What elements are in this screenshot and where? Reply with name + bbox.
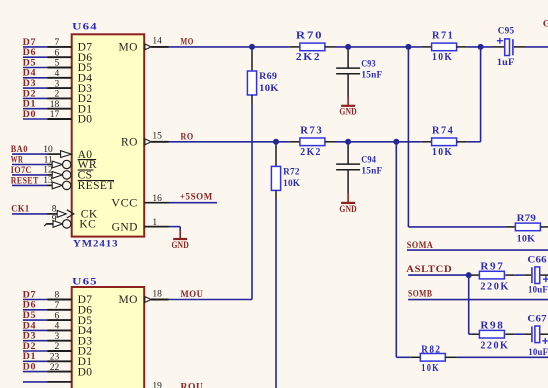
svg-text:10K: 10K [517,234,536,244]
svg-text:8: 8 [52,205,57,215]
svg-text:C66: C66 [527,254,547,264]
svg-text:6: 6 [54,48,59,58]
svg-text:D1: D1 [23,352,36,362]
svg-text:MOU: MOU [181,290,204,300]
svg-text:10K: 10K [283,178,300,188]
svg-text:RO: RO [181,132,194,142]
svg-text:220K: 220K [480,340,509,352]
svg-text:KC: KC [79,219,96,231]
svg-text:D3: D3 [23,332,36,342]
svg-text:IO7C: IO7C [11,166,32,176]
svg-text:10uF: 10uF [528,285,548,295]
svg-text:RESET: RESET [11,176,39,186]
svg-text:220K: 220K [480,281,510,293]
svg-text:MO: MO [118,294,137,306]
svg-text:D7: D7 [23,290,36,300]
svg-text:D2: D2 [23,89,36,99]
svg-text:2: 2 [54,342,59,352]
svg-text:R82: R82 [421,344,441,356]
svg-text:VCC: VCC [111,197,138,209]
svg-text:R69: R69 [259,71,277,81]
svg-text:7: 7 [54,301,59,311]
svg-text:3: 3 [54,79,59,89]
svg-text:15: 15 [152,132,162,142]
svg-text:MO: MO [118,42,137,54]
svg-text:D1: D1 [23,100,36,110]
svg-text:RO: RO [121,137,138,149]
svg-text:2: 2 [54,90,59,100]
svg-text:10K: 10K [259,83,279,93]
svg-text:G: G [543,20,548,30]
svg-text:C95: C95 [498,25,515,35]
svg-text:R74: R74 [432,124,454,136]
svg-text:R72: R72 [283,167,300,177]
svg-text:D4: D4 [23,69,36,79]
svg-text:GND: GND [339,107,357,117]
svg-text:14: 14 [152,37,162,47]
svg-text:D2: D2 [23,342,36,352]
svg-text:D6: D6 [23,48,36,58]
svg-text:13: 13 [43,176,53,186]
svg-text:6: 6 [54,311,59,321]
svg-text:23: 23 [50,353,60,363]
svg-text:RESET: RESET [78,180,115,192]
svg-text:10K: 10K [432,146,453,158]
svg-text:C94: C94 [361,155,376,165]
svg-text:ASLTCD: ASLTCD [406,265,452,275]
svg-text:4: 4 [54,322,59,332]
svg-text:D0: D0 [23,363,36,373]
svg-text:18: 18 [50,100,60,110]
svg-text:D0: D0 [78,114,93,126]
svg-text:GND: GND [112,221,138,233]
svg-text:10uF: 10uF [528,347,548,357]
svg-text:15nF: 15nF [361,166,382,176]
svg-text:10K: 10K [432,51,453,63]
svg-text:16: 16 [152,194,162,204]
svg-text:MO: MO [181,38,194,48]
svg-text:D3: D3 [23,79,36,89]
svg-text:+5SOM: +5SOM [180,193,213,203]
svg-text:ROU: ROU [181,383,204,388]
svg-text:R97: R97 [480,261,504,273]
svg-text:D0: D0 [78,366,93,378]
svg-text:C93: C93 [361,59,376,69]
svg-text:1: 1 [152,218,157,228]
svg-text:R71: R71 [432,30,454,42]
svg-text:1uF: 1uF [497,57,515,67]
svg-text:GND: GND [339,204,357,214]
svg-text:10: 10 [43,145,53,155]
svg-text:C67: C67 [527,313,547,323]
svg-text:R79: R79 [517,213,537,223]
svg-text:WR: WR [11,155,23,165]
svg-text:D0: D0 [23,110,36,120]
svg-text:3: 3 [54,332,59,342]
svg-text:R73: R73 [300,124,323,136]
svg-text:D5: D5 [23,311,36,321]
svg-text:19: 19 [152,382,162,388]
svg-text:17: 17 [50,110,60,120]
svg-text:D7: D7 [23,38,36,48]
svg-text:15nF: 15nF [361,69,382,79]
svg-text:R98: R98 [480,320,504,332]
svg-text:9: 9 [52,215,57,225]
svg-text:22: 22 [50,363,60,373]
svg-text:10K: 10K [421,362,440,374]
svg-text:5: 5 [54,59,59,69]
svg-text:7: 7 [54,38,59,48]
svg-text:2K2: 2K2 [300,146,322,158]
svg-text:R70: R70 [296,30,324,42]
svg-text:GND: GND [171,240,189,250]
svg-text:18: 18 [152,289,162,299]
svg-text:D4: D4 [23,321,36,331]
svg-text:2K2: 2K2 [296,51,321,63]
svg-text:12: 12 [43,166,53,176]
svg-text:YM2413: YM2413 [73,239,119,249]
svg-text:BA0: BA0 [11,145,28,155]
svg-text:U64: U64 [72,23,98,33]
svg-text:4: 4 [54,69,59,79]
svg-text:11: 11 [44,155,53,165]
svg-text:8: 8 [54,291,59,301]
svg-text:CK1: CK1 [11,204,30,214]
svg-text:SOMA: SOMA [407,241,434,251]
svg-text:U65: U65 [72,277,98,287]
svg-text:SOMB: SOMB [408,289,433,299]
svg-text:D5: D5 [23,58,36,68]
svg-text:D6: D6 [23,301,36,311]
